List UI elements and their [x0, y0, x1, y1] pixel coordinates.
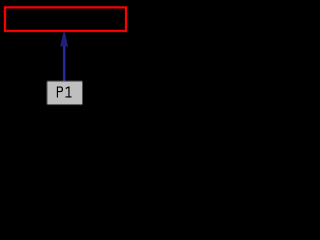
node P1 (gray box) [46, 80, 83, 106]
background [0, 0, 131, 112]
arrowhead [60, 32, 68, 46]
node N0 (truncated node, red border, empty label) [5, 7, 126, 31]
label P1 [57, 86, 72, 97]
wire (edge shaft P1 to N0) [62, 46, 65, 82]
